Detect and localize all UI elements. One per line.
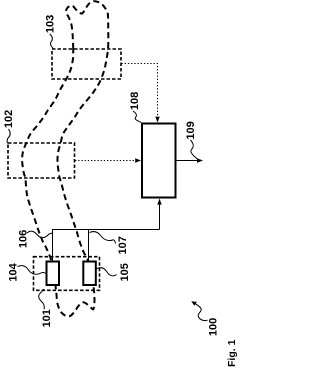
output arrow 109: [177, 160, 200, 162]
leader squiggle for 107: [90, 232, 116, 244]
dashed region box 102: [8, 143, 75, 178]
leader squiggle for 104: [18, 266, 46, 275]
dashed region box 103: [52, 49, 121, 79]
svg-text:100: 100: [207, 318, 219, 336]
reference arrow 100: [195, 304, 207, 321]
svg-text:107: 107: [117, 236, 129, 254]
svg-text:106: 106: [18, 230, 30, 248]
sensor 105: [83, 262, 96, 286]
svg-text:108: 108: [129, 92, 141, 110]
wire 107 (from sensor 105): [88, 230, 90, 262]
wire riser to block 108: [159, 202, 161, 230]
leader squiggle for 106: [27, 231, 52, 237]
leader squiggle for 102: [7, 129, 10, 144]
dotted link from box 103 to block 108: [122, 64, 158, 119]
dotted link from box 102 to block 108: [75, 160, 137, 162]
leader squiggle for 108: [133, 111, 141, 123]
wire 106 (from sensor 104): [53, 230, 160, 262]
leader squiggle for 103: [50, 34, 54, 49]
svg-text:103: 103: [45, 15, 57, 33]
svg-text:104: 104: [8, 262, 20, 281]
svg-text:101: 101: [41, 309, 53, 327]
svg-text:102: 102: [3, 110, 15, 128]
svg-text:105: 105: [119, 263, 131, 281]
sensor unit dashed box 101: [34, 257, 100, 291]
svg-text:109: 109: [185, 121, 197, 139]
block 108: [142, 124, 176, 198]
leader squiggle for 101: [39, 289, 45, 309]
svg-text:Fig. 1: Fig. 1: [226, 339, 238, 367]
sensor 104: [47, 262, 60, 286]
body outline (dashed limb contour): [22, 1, 108, 316]
leader squiggle for 105: [97, 268, 117, 276]
leader squiggle for 109: [191, 140, 200, 161]
